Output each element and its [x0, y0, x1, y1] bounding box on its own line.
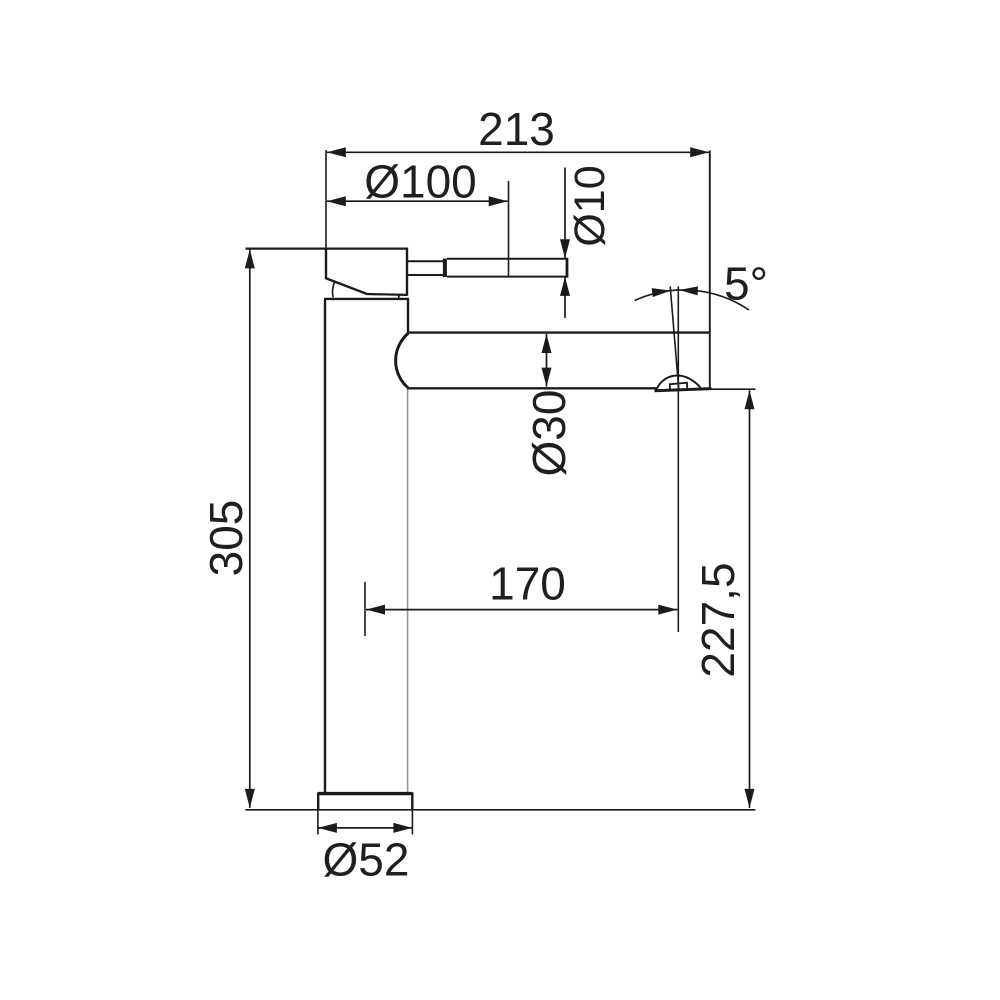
- svg-text:Ø30: Ø30: [523, 390, 575, 477]
- svg-text:170: 170: [489, 558, 566, 610]
- svg-text:213: 213: [478, 103, 555, 155]
- svg-text:227,5: 227,5: [692, 562, 744, 677]
- svg-text:Ø10: Ø10: [566, 165, 614, 246]
- svg-text:5°: 5°: [724, 258, 768, 310]
- svg-text:Ø100: Ø100: [364, 156, 477, 208]
- svg-text:Ø52: Ø52: [323, 834, 410, 886]
- svg-text:305: 305: [200, 500, 252, 577]
